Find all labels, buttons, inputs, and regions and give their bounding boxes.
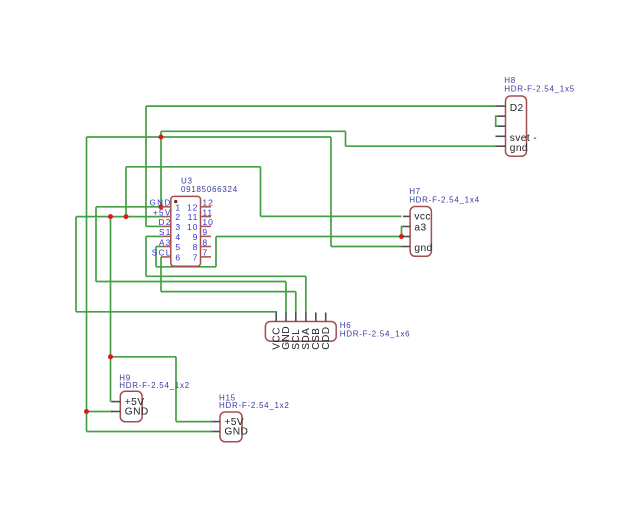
svg-text:vcc: vcc	[414, 212, 430, 223]
H9 pin 2 stub	[111, 411, 120, 413]
svg-text:HDR-F-2.54_1x2: HDR-F-2.54_1x2	[219, 401, 290, 410]
H6 pin 6 stub	[325, 313, 327, 322]
svg-text:A3: A3	[159, 238, 172, 247]
svg-text:7: 7	[193, 252, 199, 262]
junction +5V branch	[108, 354, 113, 359]
svg-text:5: 5	[175, 242, 181, 252]
svg-text:D2: D2	[510, 103, 524, 114]
H7 pin 4 stub	[402, 246, 411, 248]
wire +5V to H6 VCC pin	[76, 311, 276, 314]
wire GND vertical x345.5	[345, 131, 347, 146]
U3 body	[171, 196, 201, 266]
H7 pin 1 stub	[403, 215, 410, 217]
U3 pin 6 stub	[161, 256, 171, 258]
H15 pin 2 stub	[212, 431, 221, 433]
header H8	[496, 76, 575, 156]
svg-text:4: 4	[175, 232, 181, 242]
svg-text:HDR-F-2.54_1x5: HDR-F-2.54_1x5	[504, 84, 575, 93]
H7 pin 3 stub	[403, 236, 410, 238]
svg-text:gnd: gnd	[510, 143, 528, 154]
wire GND bottom to H15 GND pin	[87, 431, 212, 433]
wire +5V branch to H15	[111, 356, 177, 358]
svg-text:8: 8	[202, 237, 208, 247]
svg-text:gnd: gnd	[414, 243, 432, 254]
wire A3 vertical x156	[155, 247, 157, 267]
svg-text:12: 12	[202, 198, 213, 208]
svg-text:9: 9	[202, 227, 208, 237]
H7 body	[410, 207, 431, 257]
junction +5V x110.5	[108, 214, 113, 219]
wire +5V vertical x176	[175, 357, 177, 422]
svg-text:6: 6	[175, 252, 181, 262]
wire GND vertical x96	[95, 207, 97, 282]
svg-text:8: 8	[193, 242, 199, 252]
H6 pin 2 stub	[285, 313, 287, 322]
U3 pin1 marker	[174, 200, 177, 203]
svg-text:12: 12	[187, 202, 198, 212]
U3 pin 2 stub	[161, 216, 171, 218]
U3 pin 10 stub	[201, 225, 212, 227]
wire +5V to H7 vcc pin	[261, 215, 402, 217]
U3 pin 7 stub	[201, 256, 212, 258]
wire SCL from U3 pin6 down	[160, 257, 162, 292]
junction at x161 y137	[159, 135, 164, 140]
U3 pin 9 stub	[201, 235, 212, 237]
wire S1 drop to H6 SDA pin	[305, 276, 307, 312]
wire A3 horizontal y266.8	[156, 266, 216, 268]
H8 pin 2 stub	[498, 115, 506, 117]
wire SCL drop to H6 SCL pin	[295, 292, 297, 313]
wire D2 net top horizontal to H8 pin1	[146, 105, 496, 107]
svg-text:HDR-F-2.54_1x2: HDR-F-2.54_1x2	[119, 381, 190, 390]
H8 pin 5 stub	[496, 145, 506, 147]
svg-text:7: 7	[202, 248, 208, 258]
wire SCL horizontal y291.6	[161, 291, 296, 293]
svg-text:SCL: SCL	[152, 249, 172, 258]
wire A3 vertical x216	[215, 237, 217, 267]
header H15	[212, 394, 290, 442]
H8 pin 1 stub	[496, 105, 506, 107]
H8 pin 3 stub	[498, 125, 506, 127]
svg-text:10: 10	[202, 217, 213, 227]
H8 pin 4 stub	[496, 135, 506, 137]
wire GND horizontal y281.5	[96, 281, 286, 283]
junction +5V x126	[124, 214, 129, 219]
wire GND horizontal y131	[161, 130, 346, 132]
svg-text:11: 11	[188, 212, 199, 222]
wire U3 pin1 GND left	[96, 206, 161, 208]
wire GND vertical x331	[330, 137, 332, 247]
svg-text:3: 3	[175, 222, 181, 232]
junction H7 a3	[399, 234, 404, 239]
svg-text:GND: GND	[149, 199, 171, 208]
wire A3 from U3 pin5	[156, 246, 161, 248]
svg-text:9: 9	[193, 232, 199, 242]
svg-text:S1: S1	[159, 228, 172, 237]
wire H8 pins 2-3 loop	[496, 116, 499, 126]
H6 pin 4 stub	[305, 313, 307, 322]
wire +5V to H9 +5V pin	[111, 401, 113, 403]
H15 body	[220, 412, 242, 442]
wire S1 horizontal y276.3	[146, 275, 306, 277]
wire D2 net to U3 D2 pin	[146, 225, 161, 227]
wire +5V vertical x76	[75, 217, 77, 312]
header H6	[265, 313, 410, 350]
svg-text:GND: GND	[125, 406, 149, 417]
wire GND to H7 gnd pin	[331, 246, 402, 248]
wire A3 horizontal to H7	[216, 236, 402, 238]
U3 pin 3 stub	[161, 225, 171, 227]
wire GND to H8 gnd pin	[346, 145, 496, 147]
svg-text:09185066324: 09185066324	[181, 185, 238, 194]
wire +5V horizontal to U3 pin2	[76, 216, 161, 218]
header H9	[111, 374, 190, 422]
svg-text:GND: GND	[224, 427, 248, 438]
H9 pin 1 stub	[112, 401, 120, 403]
IC U3	[149, 177, 237, 267]
wire GND horizontal y137	[87, 136, 332, 138]
wire +5V vertical x126 up	[125, 167, 127, 217]
wire S1 from U3 pin4	[146, 235, 161, 237]
svg-text:10: 10	[187, 222, 198, 232]
svg-text:HDR-F-2.54_1x6: HDR-F-2.54_1x6	[340, 329, 411, 338]
wire H7 a3 pin jog	[402, 227, 404, 237]
U3 pin 5 stub	[161, 246, 171, 248]
H9 body	[120, 391, 142, 422]
svg-text:HDR-F-2.54_1x4: HDR-F-2.54_1x4	[409, 196, 480, 205]
H8 body	[506, 96, 527, 156]
H6 pin 3 stub	[295, 313, 297, 322]
svg-text:D2: D2	[159, 218, 172, 227]
svg-text:2: 2	[175, 212, 181, 222]
U3 pin 12 stub	[201, 206, 212, 208]
wire GND to H9 GND pin	[87, 411, 113, 413]
junction at U3 GND pin	[159, 204, 164, 209]
U3 pin 8 stub	[201, 246, 212, 248]
wire +5V vertical x260.5	[260, 167, 262, 217]
H6 pin 1 stub	[275, 313, 277, 322]
wire GND vertical x161	[160, 131, 162, 207]
svg-text:+5V: +5V	[153, 208, 172, 217]
H6 body	[265, 322, 336, 342]
H7 pin 2 stub	[403, 226, 410, 228]
svg-text:CDD: CDD	[321, 327, 332, 350]
wire +5V horizontal y166.8	[126, 166, 261, 168]
wire D2 net vertical x146	[145, 106, 147, 226]
wire S1 vertical x146	[145, 236, 147, 276]
svg-text:a3: a3	[414, 223, 426, 234]
wire GND drop to H6 GND pin	[285, 282, 287, 313]
H6 pin 5 stub	[315, 313, 317, 322]
wire GND long vertical x86.5	[86, 137, 88, 432]
U3 pin 1 stub	[161, 206, 171, 208]
header H7	[402, 187, 480, 256]
junction GND at H9	[84, 409, 89, 414]
wire +5V vertical x110.5	[110, 217, 112, 402]
U3 pin 11 stub	[201, 216, 212, 218]
H15 pin 1 stub	[212, 421, 221, 423]
wire +5V to H15 +5V pin	[176, 421, 212, 423]
U3 pin 4 stub	[161, 235, 171, 237]
svg-text:11: 11	[202, 207, 213, 217]
svg-text:1: 1	[175, 202, 181, 212]
